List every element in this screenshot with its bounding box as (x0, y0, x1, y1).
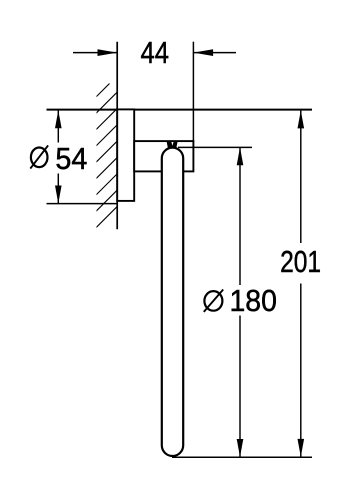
201 down arrow (298, 439, 305, 457)
label D180 diameter symbol (204, 290, 223, 312)
44 dimension line right (194, 52, 236, 54)
bottom extension line (172, 456, 312, 458)
D180 dimension line (239, 147, 241, 285)
svg-text:44: 44 (141, 35, 170, 70)
wall hatching (95, 74, 119, 229)
D180 up arrow (237, 147, 244, 165)
201 dimension line (300, 110, 302, 243)
hook notch (171, 142, 173, 146)
svg-text:201: 201 (280, 244, 321, 279)
D54 down arrow (55, 186, 62, 204)
svg-text:54: 54 (55, 141, 87, 176)
D54 up arrow (55, 110, 62, 128)
44 left arrow (98, 49, 118, 56)
label D54 diameter symbol (30, 145, 48, 168)
44 right arrow (193, 49, 213, 56)
44 dimension line left (73, 52, 117, 54)
towel ring (162, 148, 183, 456)
D54 bottom extension line (47, 203, 118, 205)
44 right extension line (192, 42, 194, 142)
wall plate (117, 109, 134, 200)
ring hook (167, 142, 178, 148)
ring top thin extension line (178, 146, 252, 148)
holder arm (134, 141, 193, 171)
svg-text:180: 180 (229, 283, 277, 318)
wall face line (116, 42, 118, 230)
top extension line (47, 109, 313, 111)
D180 down arrow (237, 439, 244, 457)
D54 dimension line (57, 110, 59, 142)
201 up arrow (298, 110, 305, 128)
